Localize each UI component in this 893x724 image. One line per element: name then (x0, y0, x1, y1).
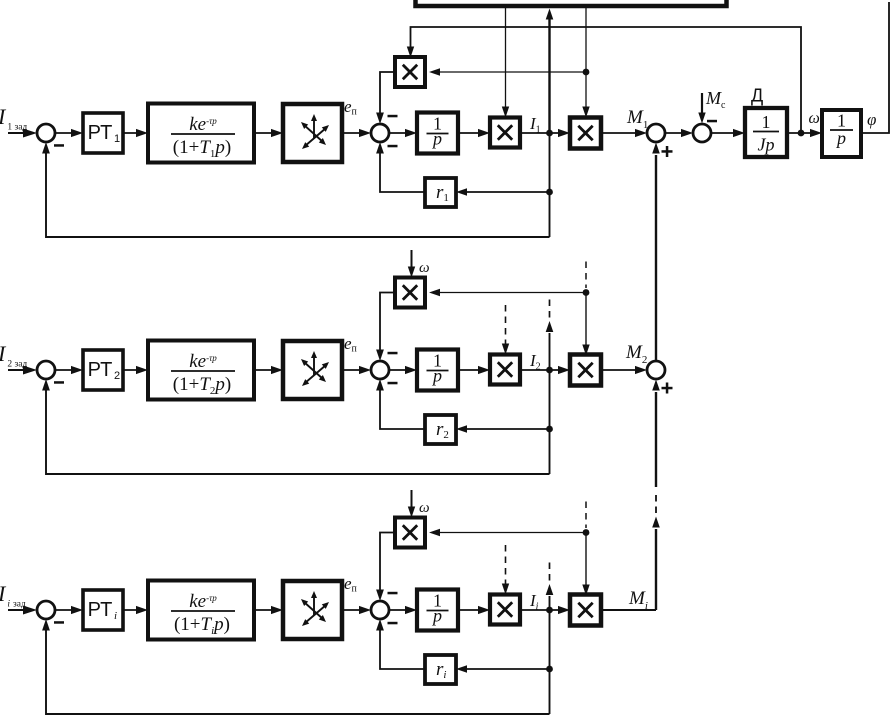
svg-text:ω: ω (419, 260, 430, 276)
block UZ1 power converter (283, 104, 342, 162)
minus sign at S14 Mc input (707, 120, 717, 123)
svg-text:РТ: РТ (88, 359, 113, 381)
wire to block r2 (466, 428, 550, 430)
svg-text:РТ: РТ (88, 599, 113, 621)
summing junction S11 (input comparator) (37, 124, 55, 142)
wire r3 output to S32 lower input (380, 627, 425, 669)
minus sign at S21 feedback input (54, 381, 64, 384)
wire I2 to multiplier X22 (520, 369, 562, 371)
block W1 transfer function ke^-tp/(1+T1p) (148, 104, 254, 163)
block 1/p integrator (row 3) (417, 590, 458, 631)
wire omega from 1/Jp to 1/p (787, 132, 814, 134)
junction I1 node (546, 130, 553, 137)
junction r1 feedback node (546, 189, 553, 196)
svg-text:p: p (431, 606, 442, 626)
wire UZ2 to summing junction S22 (342, 369, 363, 371)
multiplier X12 torque product (570, 118, 601, 149)
wire I3 to multiplier X32 (520, 609, 562, 611)
summing junction S31 (input comparator) (37, 601, 55, 619)
minus sign at S32 lower input (388, 622, 398, 625)
junction emf coupling node row 3 (583, 529, 590, 536)
summing junction S21 (input comparator) (37, 361, 55, 379)
wire coupling down to multiplier X22 (585, 293, 587, 348)
junction emf coupling node row 2 (583, 289, 590, 296)
wire emf coupling to multiplier X1c (437, 71, 586, 73)
minus sign at S22 upper input (388, 352, 398, 355)
minus sign at S32 upper input (388, 592, 398, 595)
summing junction S22 (emf node) (371, 361, 389, 379)
svg-text:p: p (431, 366, 442, 386)
wire emf coupling to X3c (437, 532, 586, 534)
wire W2 to converter UZ2 (254, 369, 275, 371)
wire UZ1 to summing junction S12 (342, 132, 363, 134)
wire input I1zad (8, 132, 27, 134)
wire Ii up to other channels (dashed continuation) (549, 596, 551, 610)
junction omega node (798, 130, 805, 137)
multiplier X22 torque product (570, 355, 601, 386)
summing junction S13 torque sum (647, 124, 665, 142)
block W2 transfer function ke^-tp/(1+T2p) (148, 341, 254, 400)
wire X3c output to S32 (380, 533, 395, 594)
minus sign at S22 lower input (388, 382, 398, 385)
svg-text:ω: ω (809, 110, 820, 127)
block UZ3 power converter (283, 581, 342, 639)
svg-text:Д: Д (751, 86, 763, 106)
minus sign at S31 feedback input (54, 621, 64, 624)
block r3 resistance feedback (425, 655, 456, 684)
svg-text:i: i (114, 610, 117, 622)
wire r1 output to S12 lower input (380, 150, 425, 192)
wire emf coupling dashed from above (row 2) (585, 262, 587, 289)
wire top block output to multiplier X12 (585, 8, 587, 109)
svg-text:(1+T1p): (1+T1p) (173, 137, 231, 160)
wire X12 to summing junction S13 (601, 132, 639, 134)
wire dashed flux input to X31 (505, 545, 507, 586)
wire Mi up to S23 (dashed continuation) (655, 529, 657, 610)
wire S13 to S14 (665, 132, 685, 134)
wire outer current feedback loop row 3 (46, 627, 550, 714)
wire X22 to summing junction S23 (601, 369, 639, 371)
summing junction S12 (emf node) (371, 124, 389, 142)
svg-text:ω: ω (419, 500, 430, 516)
wire X2c output to S22 (380, 293, 395, 354)
block PT3 current regulator (83, 590, 123, 630)
svg-text:2: 2 (114, 370, 120, 382)
wire X32 output Mi (601, 609, 656, 611)
wire S14 to motor 1/Jp (711, 132, 737, 134)
wire S32 to integrator 1/p (389, 609, 409, 611)
block W3 transfer function ke^-tp/(1+T<tspan font-style="italic">i</tspan>p) (148, 581, 254, 640)
junction r3 feedback node (546, 666, 553, 673)
wire UZ3 to summing junction S32 (342, 609, 363, 611)
wire Mc load torque input (701, 93, 703, 115)
multiplier X21 (490, 355, 520, 385)
wire I1 feedback up into top block (548, 19, 550, 133)
wire input I2zad (8, 369, 27, 371)
wire 1/p to multiplier X31 (458, 609, 482, 611)
top block (cut off at image edge) (416, 0, 727, 6)
block 1/p integrator (row 2) (417, 350, 458, 391)
svg-text:(1+Tip): (1+Tip) (174, 614, 230, 637)
svg-text:1: 1 (114, 133, 120, 145)
block PT2 current regulator (83, 350, 123, 390)
wire M2 up to S13 (655, 155, 657, 361)
multiplier X2c emf cross product (395, 278, 425, 308)
wire S31 to PT3 (55, 609, 75, 611)
wire omega input to X3c (411, 490, 413, 507)
wire W3 to converter UZ3 (254, 609, 275, 611)
multiplier X1c emf cross product (395, 57, 425, 87)
svg-text:РТ: РТ (88, 122, 113, 144)
svg-text:(1+T2p): (1+T2p) (173, 374, 231, 397)
block PT1 current regulator (83, 113, 123, 153)
wire r2 inner feedback vertical (549, 370, 551, 474)
multiplier X3c emf cross product (395, 518, 425, 548)
block 1/p integrator (row 1) (417, 113, 458, 154)
wire 1/p to multiplier X11 (458, 132, 482, 134)
junction r2 feedback node (546, 426, 553, 433)
junction on X12 wire for emf coupling (583, 69, 590, 76)
wire emf coupling to X2c (437, 292, 586, 294)
wire S12 to integrator 1/p (389, 132, 409, 134)
wire S22 to integrator 1/p (389, 369, 409, 371)
summing junction S32 (emf node) (371, 601, 389, 619)
wire W1 to converter UZ1 (254, 132, 275, 134)
minus sign at S11 feedback input (54, 144, 64, 147)
plus sign at S23 lower input (662, 387, 673, 390)
wire dashed flux input to X21 (505, 305, 507, 346)
wire PT2 to W2 (123, 369, 140, 371)
wire S21 to PT2 (55, 369, 75, 371)
wire outer current feedback loop row 1 (46, 150, 550, 237)
plus sign at S13 lower input (662, 150, 673, 153)
wire to block r1 (466, 191, 550, 193)
wire I1 to multiplier X12 (520, 132, 562, 134)
block r1 resistance feedback (425, 178, 456, 207)
summing junction S14 load torque node (693, 124, 711, 142)
wire S11 to PT1 (55, 132, 75, 134)
block 1/Jp motor mechanical integrator (745, 108, 787, 157)
wire omega feedback from motor shaft to multiplier X1c (411, 27, 802, 133)
junction I2 node (546, 367, 553, 374)
wire PT3 to W3 (123, 609, 140, 611)
wire X1c output to S12 (380, 72, 395, 116)
wire coupling down to multiplier X32 (585, 533, 587, 588)
wire phi output to top (859, 2, 889, 133)
minus sign at S12 upper input (388, 115, 398, 118)
wire PT1 to W1 (123, 132, 140, 134)
svg-text:1: 1 (762, 112, 771, 132)
wire outer current feedback loop row 2 (46, 387, 550, 474)
junction I3 node (546, 607, 553, 614)
summing junction S23 torque sum (647, 361, 665, 379)
svg-text:φ: φ (867, 110, 876, 129)
multiplier X11 (490, 118, 520, 148)
wire omega input to X2c (411, 250, 413, 267)
wire 1/p to multiplier X21 (458, 369, 482, 371)
block 1/p angle integrator (822, 110, 861, 157)
wire r2 output to S22 lower input (380, 387, 425, 429)
svg-text:Jp: Jp (758, 135, 775, 155)
multiplier X31 (490, 595, 520, 625)
wire top block output to multiplier X11 (505, 8, 507, 107)
wire I2 up to other channels (dashed continuation) (549, 333, 551, 370)
wire r1 inner feedback vertical (549, 133, 551, 237)
wire emf coupling dashed from above (row 3) (585, 502, 587, 529)
wire input I3zad (8, 609, 27, 611)
minus sign at S12 lower input (388, 145, 398, 148)
block UZ2 power converter (283, 341, 342, 399)
wire r3 inner feedback vertical (549, 610, 551, 714)
block r2 resistance feedback (425, 415, 456, 444)
multiplier X32 torque product (570, 595, 601, 626)
svg-text:p: p (431, 129, 442, 149)
svg-text:p: p (835, 128, 846, 148)
wire to block r3 (466, 668, 550, 670)
